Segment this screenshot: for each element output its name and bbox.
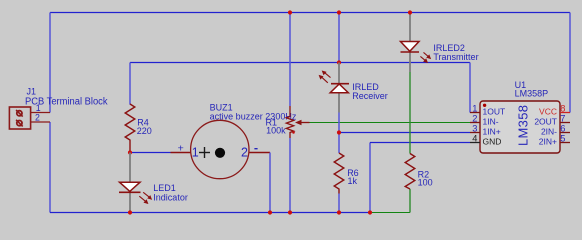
wire R1 bottom vertical to ground rail (289, 138, 291, 213)
svg-text:2OUT: 2OUT (534, 117, 557, 127)
wire buzzer pin 2 down to bottom rail (269, 153, 271, 213)
wire receiver node vertical to R6 (338, 113, 340, 154)
node junction receiver top on output net (337, 60, 341, 64)
wire to IC pin 4 GND horizontal (370, 142, 470, 144)
wire left vertical from top rail down to J1 pin 1 (49, 13, 51, 113)
wire ground rail up to IC pin 4 vertical (369, 143, 371, 213)
pin stub buzzer pin 2 (249, 152, 270, 154)
wire bottom ground rail green segment to R2 (370, 212, 410, 214)
pin stub U1 pin 3 (470, 132, 480, 134)
resistor R6 (334, 153, 344, 194)
wire R2 bottom green vertical (409, 189, 411, 213)
pin stub J1 pin 1 (31, 112, 51, 114)
pin stub U1 pin 5 (560, 142, 570, 144)
svg-text:2: 2 (35, 113, 40, 123)
svg-text:7: 7 (560, 113, 565, 123)
node junction ground rail at IC GND branch (368, 210, 372, 214)
wire R6 bottom to ground rail (338, 194, 340, 213)
svg-text:4: 4 (472, 133, 477, 143)
svg-text:100: 100 (418, 177, 433, 187)
node junction ground rail at buzzer branch (268, 210, 272, 214)
svg-text:LM358: LM358 (516, 105, 531, 146)
wire receiver node to IC pin 3 (339, 132, 470, 134)
pin stub J1 pin 2 (31, 121, 51, 123)
LED LED1 indicator (119, 153, 141, 213)
wire R4 top vertical (129, 63, 131, 105)
svg-text:J1: J1 (27, 87, 37, 97)
minus net label at buzzer pin 2 (254, 148, 257, 150)
svg-text:8: 8 (560, 103, 565, 113)
svg-text:1IN-: 1IN- (483, 117, 499, 127)
wire VCC top rail (50, 12, 570, 14)
potentiometer R1 wiper arrow (295, 120, 310, 126)
pin stub U1 pin 8 power (560, 112, 570, 114)
op-amp U1 LM358P body (480, 101, 560, 153)
wire transmitter cathode to R2 green vertical (409, 72, 411, 154)
LED IRLED2 transmitter (401, 13, 420, 73)
resistor R2 (405, 154, 415, 190)
svg-text:+: + (178, 142, 184, 154)
svg-text:Receiver: Receiver (352, 91, 388, 101)
U1 pin 1 orientation marker dot (483, 104, 486, 107)
pin stub U1 pin 2 (470, 122, 480, 124)
node junction ground rail at LED1 (128, 210, 132, 214)
svg-text:VCC: VCC (539, 107, 557, 117)
svg-text:2: 2 (241, 145, 248, 159)
buzzer plus polarity cross (199, 147, 210, 158)
pin stub buzzer pin 1 (171, 152, 191, 154)
wire receiver top vertical from top rail (338, 13, 340, 63)
svg-text:Transmitter: Transmitter (433, 52, 478, 62)
wire output net horizontal from R4 top to IC column (130, 62, 470, 64)
node junction R4 / buzzer / LED1 (128, 150, 132, 154)
svg-text:2: 2 (472, 113, 477, 123)
svg-text:LM358P: LM358P (515, 89, 549, 99)
pin stub U1 pin 7 (560, 122, 570, 124)
wire R1 wiper green to IC pin 2 (310, 122, 471, 124)
svg-text:220: 220 (137, 126, 152, 136)
resistor R4 (125, 104, 135, 153)
svg-text:3: 3 (472, 123, 477, 133)
wire from J1 pin 2 down to ground rail (49, 122, 51, 213)
node junction top rail at IRLED2 (408, 10, 412, 14)
node junction ground rail at R1 (288, 210, 292, 214)
svg-text:100k: 100k (266, 126, 286, 136)
photodiode IRLED receiver (330, 63, 349, 113)
pin stub U1 pin 1 (470, 112, 480, 114)
terminal block J1 (9, 107, 30, 129)
svg-text:2IN+: 2IN+ (539, 137, 557, 147)
svg-text:Indicator: Indicator (153, 192, 188, 202)
pin stub U1 pin 6 (560, 132, 570, 134)
svg-text:active buzzer 2300Hz: active buzzer 2300Hz (210, 112, 297, 122)
IRLED2 emission arrows (420, 52, 430, 62)
wire VCC right vertical down to IC pin 8 (569, 13, 571, 113)
LED1 emission arrows (139, 192, 151, 203)
wire R1 top vertical from top rail (289, 13, 291, 107)
wire bottom ground rail (50, 212, 370, 214)
svg-text:5: 5 (560, 133, 565, 143)
node junction top rail at R1 (288, 10, 292, 14)
buzzer BUZ1 body (191, 120, 249, 178)
svg-text:1: 1 (472, 103, 477, 113)
potentiometer R1 (286, 106, 293, 138)
svg-text:1OUT: 1OUT (483, 107, 506, 117)
pin stub U1 pin 4 ground (470, 142, 480, 144)
svg-text:2IN-: 2IN- (541, 127, 557, 137)
potentiometer R1 pin marker dot (292, 131, 295, 134)
svg-text:1k: 1k (348, 176, 358, 186)
wire R4 junction to buzzer pin 1 (130, 152, 171, 154)
IRLED receiver incoming light arrows (320, 71, 331, 83)
node junction receiver node to IC pin 3 (337, 130, 341, 134)
svg-text:1: 1 (192, 145, 199, 159)
svg-text:1IN+: 1IN+ (483, 127, 501, 137)
svg-text:GND: GND (483, 137, 502, 147)
buzzer center dot (215, 148, 225, 158)
node junction top rail at receiver (337, 10, 341, 14)
wire output net vertical down to IC pin 1 (469, 63, 471, 113)
node junction ground rail at R6 (337, 210, 341, 214)
svg-text:6: 6 (560, 123, 565, 133)
